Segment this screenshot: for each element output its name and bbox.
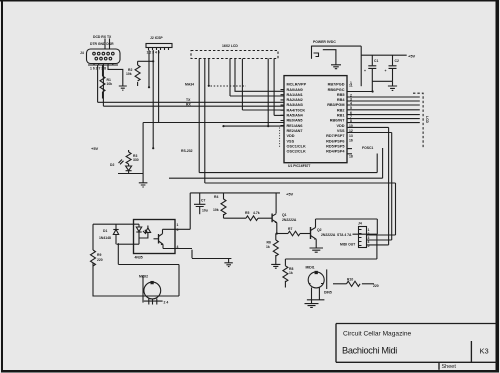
svg-text:1: 1 [177, 223, 179, 227]
svg-text:RB7/PGD: RB7/PGD [328, 83, 345, 87]
svg-text:FOSC1: FOSC1 [362, 146, 373, 150]
svg-text:RA5/AN4: RA5/AN4 [287, 114, 304, 118]
svg-text:MA34: MA34 [185, 83, 194, 87]
svg-text:D2: D2 [110, 163, 114, 167]
svg-text:MIDI2: MIDI2 [139, 275, 148, 279]
svg-text:+5V: +5V [408, 54, 416, 59]
svg-text:1N4148: 1N4148 [99, 236, 111, 240]
svg-text:10k: 10k [126, 72, 132, 76]
svg-text:R9: R9 [97, 253, 101, 257]
svg-text:R6: R6 [267, 241, 271, 245]
svg-text:RB6/PGC: RB6/PGC [328, 88, 345, 92]
svg-text:220: 220 [97, 258, 103, 262]
svg-text:D1: D1 [103, 229, 107, 233]
svg-text:12: 12 [349, 129, 353, 133]
svg-text:VDD: VDD [336, 124, 344, 128]
svg-text:C7: C7 [201, 199, 205, 203]
svg-text:4: 4 [177, 245, 179, 249]
svg-text:Q1: Q1 [282, 213, 287, 217]
svg-text:+5V: +5V [91, 146, 99, 151]
svg-text:RE0/AN5: RE0/AN5 [287, 119, 303, 123]
svg-text:J2 ICSP: J2 ICSP [150, 36, 163, 40]
svg-text:C2: C2 [395, 59, 399, 63]
svg-text:5: 5 [368, 244, 370, 248]
svg-text:RA0/AN0: RA0/AN0 [287, 88, 303, 92]
svg-text:RD5/PSP5: RD5/PSP5 [326, 144, 344, 148]
svg-text:OSC2/CLK: OSC2/CLK [287, 150, 306, 154]
svg-text:R5: R5 [245, 211, 249, 215]
svg-text:10k: 10k [107, 82, 113, 86]
svg-text:8: 8 [350, 119, 352, 123]
svg-text:Circuit Cellar Magazine: Circuit Cellar Magazine [343, 331, 411, 338]
svg-text:RB3/PGM: RB3/PGM [327, 103, 344, 107]
svg-text:10k: 10k [213, 208, 219, 212]
svg-text:R10: R10 [347, 278, 353, 282]
svg-text:2 4: 2 4 [164, 301, 169, 305]
svg-text:RD7/PSP7: RD7/PSP7 [326, 134, 344, 138]
svg-text:16: 16 [349, 139, 353, 143]
svg-text:DTR GND DSR: DTR GND DSR [90, 42, 114, 46]
svg-text:C1: C1 [374, 59, 378, 63]
svg-text:10u: 10u [202, 209, 208, 213]
svg-text:RB1: RB1 [337, 114, 345, 118]
svg-text:J4: J4 [358, 222, 362, 226]
svg-text:RA4/T0CK: RA4/T0CK [287, 108, 306, 112]
svg-text:+: + [385, 69, 387, 73]
svg-text:RB2: RB2 [337, 108, 345, 112]
svg-text:RA2/AN2: RA2/AN2 [287, 98, 303, 102]
svg-text:RB0/INT: RB0/INT [330, 119, 345, 123]
svg-text:2N2222A: 2N2222A [321, 233, 336, 237]
svg-text:220: 220 [373, 284, 379, 288]
svg-text:Bachiochi Midi: Bachiochi Midi [342, 346, 397, 356]
svg-text:1k: 1k [266, 245, 270, 249]
svg-text:330: 330 [133, 158, 139, 162]
svg-text:10: 10 [349, 124, 353, 128]
svg-text:LCD: LCD [425, 116, 429, 124]
svg-text:STA 4 7A: STA 4 7A [337, 233, 352, 237]
svg-text:RA3/AN3: RA3/AN3 [287, 103, 303, 107]
svg-text:+5V: +5V [286, 192, 294, 197]
svg-text:RE2/AN7: RE2/AN7 [287, 129, 303, 133]
svg-text:4.7k: 4.7k [253, 211, 260, 215]
svg-text:5: 5 [350, 106, 352, 110]
svg-text:U1 PIC16F877: U1 PIC16F877 [288, 164, 311, 168]
svg-text:+: + [364, 69, 366, 73]
svg-text:11: 11 [349, 84, 353, 88]
svg-text:RX: RX [186, 102, 191, 106]
svg-text:K3: K3 [480, 347, 489, 356]
svg-text:MIDI1: MIDI1 [306, 266, 315, 270]
svg-text:DCD RX TX: DCD RX TX [93, 35, 112, 39]
svg-text:Sheet: Sheet [442, 364, 457, 370]
svg-text:MIDI OUT: MIDI OUT [340, 243, 356, 247]
svg-text:1k: 1k [289, 271, 293, 275]
svg-text:1 2 3 4 5: 1 2 3 4 5 [147, 51, 160, 55]
svg-text:Q2: Q2 [317, 228, 322, 232]
svg-text:2N2222A: 2N2222A [282, 218, 297, 222]
svg-text:13: 13 [349, 134, 353, 138]
svg-text:J4: J4 [80, 51, 84, 55]
svg-text:RS-232: RS-232 [181, 149, 193, 153]
svg-text:R4: R4 [214, 195, 218, 199]
svg-text:RB4: RB4 [337, 98, 345, 102]
svg-text:1 6 2 7 3 8: 1 6 2 7 3 8 [90, 67, 106, 71]
svg-text:POWER 9VDC: POWER 9VDC [313, 40, 336, 44]
svg-text:DIN5: DIN5 [324, 291, 332, 295]
svg-text:16X2 LCD: 16X2 LCD [222, 44, 238, 48]
svg-text:RD6/PSP6: RD6/PSP6 [326, 139, 344, 143]
svg-text:VDD: VDD [287, 134, 295, 138]
svg-text:R7: R7 [288, 227, 292, 231]
svg-text:TX: TX [186, 98, 191, 102]
svg-text:RA1/AN1: RA1/AN1 [287, 93, 303, 97]
svg-text:18: 18 [349, 155, 353, 159]
svg-text:RB5: RB5 [337, 93, 345, 97]
svg-text:VSS: VSS [337, 129, 345, 133]
svg-text:MCLR/VPP: MCLR/VPP [287, 83, 307, 87]
svg-text:4: 4 [350, 101, 352, 105]
svg-text:OSC1/CLK: OSC1/CLK [287, 144, 306, 148]
svg-text:5: 5 [177, 228, 179, 232]
svg-text:RD4/PSP4: RD4/PSP4 [326, 150, 345, 154]
svg-text:VSS: VSS [287, 139, 295, 143]
svg-text:4N35: 4N35 [135, 256, 143, 260]
svg-text:RE1/AN6: RE1/AN6 [287, 124, 303, 128]
